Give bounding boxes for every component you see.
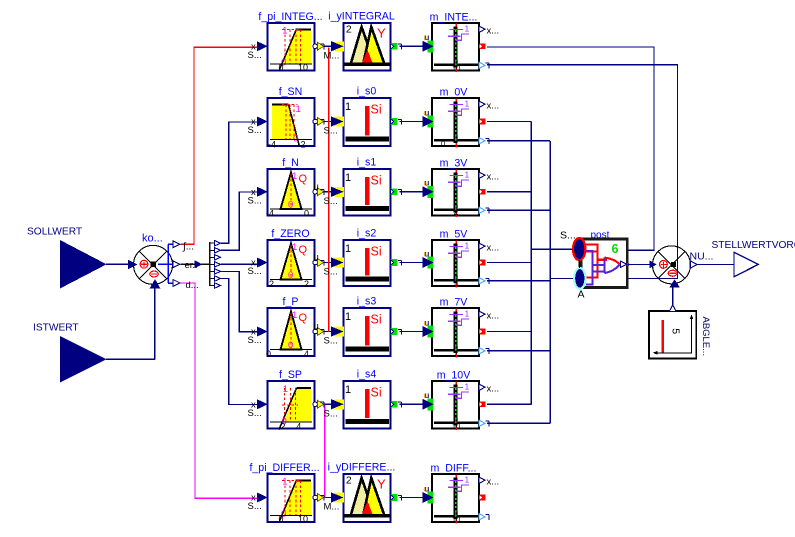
wire f_ZERO to i_s2 [323,262,331,264]
svg-text:S...: S... [248,50,262,61]
label i_yDIFFERE... [328,462,396,474]
m_0V output port mid [480,119,486,125]
svg-text:x...: x... [487,26,500,37]
svg-text:Q: Q [299,244,308,256]
svg-text:f_SP: f_SP [279,369,302,381]
svg-text:u: u [314,252,319,263]
block ABGLEICH [649,311,711,359]
m_0V output port bottom [479,138,489,144]
m_DIFF... output port x [479,477,499,488]
svg-text:4: 4 [304,349,309,359]
svg-text:ABGLE...: ABGLE... [700,317,711,357]
svg-text:6: 6 [612,242,619,256]
svg-text:x...: x... [487,311,500,322]
wire error output (black) [180,263,210,265]
wire m_INTE mid to post right [487,47,654,250]
i_s3 input arrow [324,326,345,346]
wire bracket to f_N [221,192,257,250]
svg-text:f_pi_DIFFER...: f_pi_DIFFER... [249,462,319,474]
m_10V output port bottom [479,420,489,426]
svg-text:7: 7 [454,349,458,358]
svg-text:2: 2 [346,24,352,36]
wire f_SP to i_s4 [323,403,331,405]
svg-text:m_7V: m_7V [440,297,469,309]
wire bracket to f_SP [221,279,257,405]
svg-text:f_P: f_P [283,296,299,308]
f_pi_INTEG... input arrow [248,41,268,61]
svg-text:u: u [425,32,430,42]
m_INTE... output port mid [480,43,486,49]
svg-text:-4: -4 [266,209,274,219]
NU output port [690,251,714,269]
wire i_s2 to m_5V [400,262,425,264]
svg-text:2: 2 [304,279,309,289]
m_0V output port x [479,101,499,112]
svg-text:u: u [425,483,430,493]
block f_ZERO [266,240,315,289]
svg-text:1: 1 [465,474,470,484]
svg-text:1: 1 [345,243,351,255]
label i_s4 [357,369,377,381]
wire bracket to f_ZERO [221,263,257,265]
m_7V output port mid [480,329,486,335]
svg-text:1: 1 [345,172,351,184]
output connector STELLWERTVORGABE [712,240,795,277]
svg-text:5: 5 [454,279,458,288]
block i_s4 [344,381,391,429]
svg-text:1: 1 [296,104,301,115]
label f_N [282,157,299,169]
svg-text:u: u [425,317,430,327]
block f_SP [268,381,315,432]
svg-text:1: 1 [345,384,351,396]
i_s4 input arrow [324,399,345,419]
wire i_yDIFFERE... to m_DIFF... [400,497,425,499]
block f_N [266,169,315,219]
f_SN output port [313,118,324,126]
svg-text:-2: -2 [266,279,274,289]
svg-text:d...: d... [186,280,199,291]
svg-text:1: 1 [282,477,287,488]
m_0V input arrow [423,107,434,127]
block i_yDIFFERE... [344,474,391,522]
wire f_pi_INTEG... to i_yINTEGRAL [323,45,331,47]
label m_INTE... [430,12,478,24]
m_10V output port x [479,384,499,395]
svg-text:2: 2 [346,475,352,487]
i_s0 output port [391,118,402,125]
block NU comparator [653,246,691,284]
svg-text:u: u [425,107,430,117]
label i_s1 [357,157,377,169]
m_7V output port bottom [479,348,489,354]
svg-text:4: 4 [454,208,458,217]
ko port er [173,260,198,271]
svg-text:2: 2 [281,422,286,432]
wire derivative output (magenta) [180,283,257,498]
input connector ISTWERT [33,323,107,383]
svg-text:Y: Y [377,25,386,40]
i_s1 output port [391,188,402,195]
m_DIFF... output port mid [480,495,486,501]
svg-text:u: u [425,248,430,258]
ko input arrow left [128,260,138,270]
wire f_P to i_s3 [323,331,331,333]
wire bracket to f_P [221,271,257,331]
svg-text:S...: S... [248,266,262,277]
m_INTE... input arrow [423,32,434,52]
post input ellipse A [574,268,585,301]
i_yDIFFERE... input arrow [324,492,345,512]
svg-text:S...: S... [248,125,262,136]
i_s4 output port [391,401,402,408]
ko port d [173,279,199,291]
svg-text:4: 4 [296,422,301,432]
svg-text:1: 1 [345,311,351,323]
wire i_s4 to m_10V [400,403,425,405]
ko input arrow bottom [150,279,161,289]
svg-text:S...: S... [248,335,262,346]
wire f_N to i_s1 [323,191,331,193]
block m_5V [432,240,479,288]
svg-text:A: A [578,289,585,301]
ABGLEICH output port top [669,305,676,312]
wire integral output (red) [180,47,257,244]
block m_INTE... [432,23,479,72]
wire red M-line to i_yINTEGRAL [328,47,330,332]
svg-text:u: u [314,181,319,192]
svg-text:2: 2 [301,140,306,150]
svg-text:u: u [425,390,430,400]
svg-text:10: 10 [452,63,460,72]
svg-text:∫...: ∫... [182,242,194,253]
m_5V output port x [479,243,499,254]
block i_yINTEGRAL [344,23,391,71]
junction arrow on error wire [195,260,203,268]
svg-text:f_SN: f_SN [279,86,303,98]
svg-text:Si: Si [371,313,382,327]
label f_SN [279,86,303,98]
distribution bracket [210,242,215,286]
svg-text:1: 1 [465,23,470,33]
m_DIFF... output port bottom [479,514,489,520]
svg-text:S...: S... [248,195,262,206]
wire bracket to f_SN [221,122,257,243]
label f_ZERO [271,228,309,240]
svg-text:m_3V: m_3V [440,158,469,170]
block f_SN [268,98,315,150]
f_N output port [313,181,324,196]
wire m_INTE bottom to post right lower [487,65,678,279]
block m_3V [432,169,479,217]
block m_0V [432,98,479,148]
f_SP input arrow [248,399,268,419]
m_3V output port x [479,172,499,183]
wire NU to output [697,264,734,266]
svg-text:S...: S... [248,408,262,419]
f_P output port [313,321,324,336]
svg-text:Q: Q [299,312,308,324]
NU input arrow bottom [669,279,680,287]
svg-text:i_s2: i_s2 [357,228,377,240]
svg-text:1: 1 [292,171,297,182]
m_3V input arrow [423,178,434,198]
svg-text:S...: S... [560,230,576,242]
svg-text:i_s0: i_s0 [357,86,377,98]
svg-text:i_s4: i_s4 [357,369,377,381]
svg-text:m_DIFF...: m_DIFF... [431,463,477,475]
m_7V input arrow [423,317,434,337]
label f_pi_DIFFER... [249,462,319,474]
svg-text:0: 0 [266,349,271,359]
svg-text:ko...: ko... [142,233,163,245]
input connector SOLLWERT [27,227,107,289]
svg-text:S...: S... [324,196,338,207]
svg-text:-4: -4 [268,140,276,150]
i_s2 input arrow [324,257,345,277]
svg-text:post: post [591,230,610,241]
f_ZERO output port [313,252,324,267]
m_5V output port mid [480,260,486,266]
svg-text:i_s1: i_s1 [357,157,377,169]
post input ellipse S [560,230,585,261]
block m_10V [432,381,479,430]
svg-text:ISTWERT: ISTWERT [33,323,79,334]
f_SN input arrow [248,117,268,137]
wire f_pi_DIFFER... to i_yDIFFERE... [323,497,331,499]
post ellipse link [578,260,580,268]
NU input arrow [649,260,657,268]
svg-text:x...: x... [487,243,500,254]
svg-text:1: 1 [345,101,351,113]
svg-text:M...: M... [324,50,340,61]
bracket output ports [214,240,220,288]
svg-text:1: 1 [465,308,470,318]
i_s0 input arrow [324,116,345,136]
label m_3V [440,158,469,170]
wire ISTWERT to ko [106,289,155,360]
svg-text:NU...: NU... [690,251,714,263]
svg-text:0: 0 [304,209,309,219]
svg-text:STELLWERTVORGABE: STELLWERTVORGABE [712,240,795,251]
svg-text:1: 1 [465,98,470,108]
svg-text:5: 5 [669,328,681,334]
wire NU to ABGLEICH [672,288,674,307]
m_7V output port x [479,311,499,322]
svg-text:S...: S... [324,408,338,419]
svg-text:1: 1 [283,384,288,395]
svg-text:er..: er.. [185,260,198,271]
f_SP output port [313,400,324,408]
wire SOLLWERT to ko [106,263,129,265]
svg-text:m_INTE...: m_INTE... [430,12,478,24]
label m_7V [440,297,469,309]
m_3V output port bottom [479,207,489,213]
wire i_s1 to m_3V [400,191,425,193]
wire bundle m bottom outputs (A) [487,141,575,424]
svg-text:i_s3: i_s3 [357,296,377,308]
i_s3 output port [391,328,402,335]
svg-text:Si: Si [371,386,382,400]
i_yINTEGRAL output port [391,43,402,50]
svg-text:M...: M... [324,502,340,513]
svg-text:1: 1 [282,26,287,37]
svg-text:m_10V: m_10V [437,370,471,382]
label i_s0 [357,86,377,98]
m_5V output port bottom [479,278,489,284]
label m_5V [440,229,469,241]
block f_P [266,308,315,359]
svg-text:Si: Si [371,103,382,117]
i_yDIFFERE... output port [391,494,402,501]
block ko comparator [134,233,173,285]
svg-text:1: 1 [292,310,297,321]
svg-text:f_N: f_N [282,157,299,169]
wire magenta M-line to i_yDIFFERE [324,405,326,499]
svg-text:µ: µ [455,135,459,142]
svg-text:0...: 0... [441,139,451,148]
m_10V output port mid [480,401,486,407]
svg-text:u: u [314,321,319,332]
label i_s2 [357,228,377,240]
svg-text:1: 1 [465,169,470,179]
svg-text:S...: S... [324,336,338,347]
svg-text:S...: S... [248,501,262,512]
block i_s3 [344,308,391,356]
label m_10V [437,370,471,382]
f_pi_DIFFER... input arrow [248,493,268,513]
svg-text:1: 1 [465,240,470,250]
m_INTE... output port bottom [479,62,489,68]
block i_s1 [344,169,391,216]
svg-text:10: 10 [452,421,460,430]
svg-text:Si: Si [371,245,382,259]
block f_pi_DIFFER... [268,474,315,524]
f_P input arrow [248,327,268,347]
svg-text:Q: Q [299,173,308,185]
svg-text:f_pi_INTEG...: f_pi_INTEG... [258,11,322,23]
svg-text:S...: S... [324,267,338,278]
block i_s2 [344,240,391,286]
svg-text:x...: x... [487,172,500,183]
svg-text:m_0V: m_0V [440,87,469,99]
svg-text:x...: x... [487,384,500,395]
svg-text:SOLLWERT: SOLLWERT [27,227,82,238]
m_10V input arrow [423,390,434,410]
svg-text:1: 1 [465,381,470,391]
label m_0V [440,87,469,99]
svg-text:i_yDIFFERE...: i_yDIFFERE... [328,462,396,474]
block i_s0 [344,98,391,146]
svg-text:x...: x... [487,101,500,112]
svg-text:10: 10 [452,515,460,524]
svg-text:i_yINTEGRAL: i_yINTEGRAL [328,11,395,23]
label f_P [283,296,299,308]
m_3V output port mid [480,189,486,195]
svg-text:m_5V: m_5V [440,229,469,241]
m_5V input arrow [423,248,434,268]
svg-text:f_ZERO: f_ZERO [271,228,309,240]
svg-text:1: 1 [292,242,297,253]
f_pi_INTEG... output port [313,42,324,50]
post output port [620,261,629,268]
f_ZERO input arrow [248,258,268,278]
block m_DIFF... [432,474,479,524]
i_s2 output port [391,259,402,266]
i_s1 input arrow [324,187,345,207]
block m_7V [432,308,479,358]
block f_pi_INTEG... [268,23,315,73]
label i_yINTEGRAL [328,11,395,23]
ko output bracket [158,244,173,283]
wire i_yINTEGRAL to m_INTE... [400,45,425,47]
m_INTE... output port x [479,26,499,37]
wire post to NU [628,263,651,265]
block post defuzzifier [581,230,627,287]
f_pi_DIFFER... output port [313,494,324,502]
label i_s3 [357,296,377,308]
wire f_SN to i_s0 [323,121,331,123]
i_yINTEGRAL input arrow [324,41,345,61]
label f_pi_INTEG... [258,11,322,23]
label m_DIFF... [431,463,477,475]
wire i_s0 to m_0V [400,121,425,123]
f_N input arrow [248,187,268,207]
svg-text:Si: Si [371,174,382,188]
svg-text:S...: S... [324,126,338,137]
wire i_s3 to m_7V [400,331,425,333]
m_DIFF... input arrow [423,483,434,503]
label f_SP [279,369,302,381]
wire bundle m mid outputs (S) [487,122,574,405]
ko port integral [173,241,194,253]
svg-text:Y: Y [377,476,386,491]
svg-text:x...: x... [487,477,500,488]
svg-text:u: u [425,178,430,188]
